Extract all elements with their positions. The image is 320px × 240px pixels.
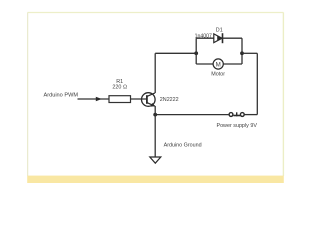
ground Arduino Ground symbol <box>150 157 161 163</box>
wire right rail vertical <box>256 53 258 114</box>
wire battery to emitter junction <box>155 114 229 116</box>
svg-text:2N2222: 2N2222 <box>160 97 179 103</box>
svg-text:Arduino PWM: Arduino PWM <box>44 93 79 99</box>
wire to right rail <box>242 52 257 54</box>
svg-text:D1: D1 <box>216 27 223 33</box>
power supply 9V battery symbol <box>229 112 244 116</box>
wire input from Arduino PWM <box>78 98 110 100</box>
wire collector vertical <box>154 53 156 93</box>
wire motor branch left <box>196 63 213 65</box>
wire bottom right to battery <box>244 114 257 116</box>
wire collector to parallel block <box>155 52 196 54</box>
frame top border <box>28 12 284 14</box>
svg-text:220 Ω: 220 Ω <box>112 85 127 91</box>
wire resistor to base <box>131 98 147 100</box>
frame left border <box>27 13 29 177</box>
motor M1 <box>213 59 223 69</box>
frame bottom band <box>27 176 284 183</box>
wire diode branch right <box>223 37 243 39</box>
wire motor branch right <box>223 63 242 65</box>
wire diode branch left <box>196 37 214 39</box>
svg-text:1n4007: 1n4007 <box>195 33 212 39</box>
svg-text:Motor: Motor <box>211 72 225 78</box>
svg-text:Power supply 9V: Power supply 9V <box>216 123 257 129</box>
arrowhead on input wire <box>96 97 102 102</box>
wire right branch vertical <box>241 38 243 64</box>
node junction left <box>194 51 198 55</box>
wire left branch vertical <box>195 38 197 64</box>
node junction emitter <box>153 113 157 117</box>
frame right border <box>282 13 284 177</box>
svg-text:M: M <box>216 61 221 68</box>
resistor R1 <box>109 96 131 103</box>
wire emitter vertical to ground <box>154 106 156 157</box>
node junction right <box>240 51 244 55</box>
transistor Q1 2N2222 <box>142 93 156 107</box>
svg-text:Arduino Ground: Arduino Ground <box>164 143 202 149</box>
diode D1 1N4007 <box>214 33 223 43</box>
